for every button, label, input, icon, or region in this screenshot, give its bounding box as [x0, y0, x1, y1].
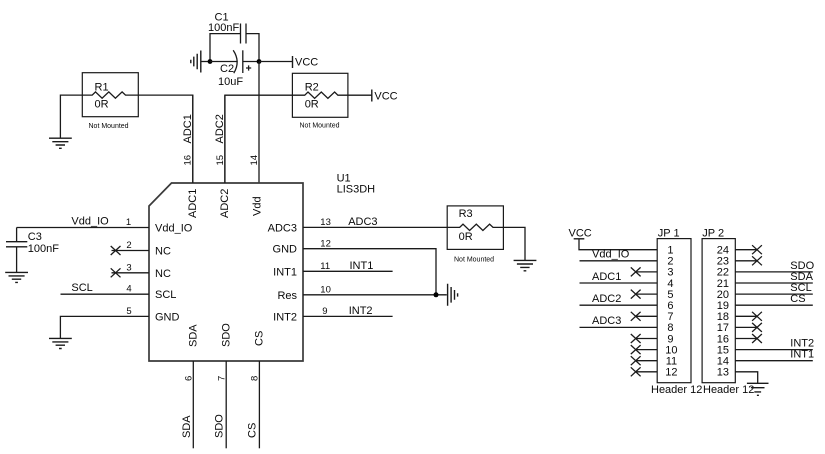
wire JP2 pin 19 CS net: [735, 304, 813, 306]
svg-text:ADC2: ADC2: [214, 114, 226, 143]
svg-text:1: 1: [126, 217, 131, 228]
wire pin 5 GND net: [60, 316, 149, 338]
svg-text:2: 2: [126, 240, 131, 251]
svg-text:4: 4: [126, 284, 131, 295]
wire Vdd net C2 junction down to pin 14: [258, 62, 260, 184]
wire JP2 pin 22 SDO net: [735, 271, 813, 273]
svg-text:ADC2: ADC2: [592, 293, 621, 305]
pin JP1-11 stub: [636, 360, 657, 362]
svg-text:C2: C2: [220, 63, 234, 75]
pin JP1-9 stub: [636, 338, 657, 340]
svg-text:Header 12: Header 12: [703, 384, 754, 396]
svg-text:INT1: INT1: [790, 349, 814, 361]
wire JP2 pin 13 to ground: [735, 372, 757, 383]
no-connect X JP2-18: [752, 312, 762, 321]
svg-text:SDA: SDA: [187, 324, 199, 347]
svg-text:NC: NC: [155, 268, 171, 280]
ground (pin 5): [49, 338, 72, 348]
wire JP1 pin 8 ADC3 net: [580, 326, 658, 328]
wire C1 right lead: [246, 34, 259, 62]
pin JP1-10 stub: [636, 349, 657, 351]
ground (JP2 pin 13): [747, 383, 769, 395]
svg-text:INT2: INT2: [273, 311, 297, 323]
svg-text:16: 16: [183, 155, 194, 166]
op-amp U1 LIS3DH body: [149, 173, 375, 362]
pin JP1-12 stub: [636, 371, 657, 373]
svg-text:INT1: INT1: [350, 260, 374, 272]
power VCC (at R2): [372, 90, 398, 103]
svg-text:SCL: SCL: [155, 289, 176, 301]
pin 2 NC stub: [112, 250, 150, 252]
svg-text:10: 10: [320, 284, 331, 295]
wire JP1 pin 6 ADC2 net: [580, 304, 658, 306]
resistor R3 0R (Not Mounted): [447, 206, 503, 264]
svg-text:14: 14: [249, 155, 260, 166]
power VCC (top): [293, 56, 319, 69]
svg-text:NC: NC: [155, 246, 171, 258]
wire pin 12 GND net elbow: [303, 249, 436, 295]
no-connect X pin 2: [111, 246, 121, 255]
svg-text:ADC2: ADC2: [219, 189, 231, 218]
header JP2 body: [702, 227, 754, 396]
wire pin 10 Res net: [303, 294, 447, 296]
svg-text:INT1: INT1: [273, 266, 297, 278]
no-connect X JP1-12: [631, 367, 641, 376]
svg-text:JP 2: JP 2: [702, 227, 724, 239]
svg-text:Vdd_IO: Vdd_IO: [71, 216, 109, 228]
svg-text:ADC1: ADC1: [187, 189, 199, 218]
no-connect X JP1-3: [631, 267, 641, 276]
svg-text:Not Mounted: Not Mounted: [89, 123, 129, 130]
wire R1 left to ground: [60, 95, 82, 138]
pin JP2-18 stub: [735, 315, 757, 317]
svg-text:Vdd: Vdd: [252, 196, 264, 216]
svg-text:R1: R1: [95, 81, 109, 93]
svg-text:5: 5: [126, 306, 131, 317]
pin JP2-17 stub: [735, 326, 757, 328]
no-connect X JP2-23: [752, 256, 762, 265]
svg-text:8: 8: [250, 376, 261, 381]
svg-text:0R: 0R: [305, 98, 319, 110]
node junction Res/GND: [434, 292, 439, 297]
svg-text:GND: GND: [155, 311, 180, 323]
svg-text:Vdd_IO: Vdd_IO: [592, 249, 630, 261]
svg-text:100nF: 100nF: [208, 22, 239, 34]
pin JP2-23 stub: [735, 260, 757, 262]
ground (at Res pin, rotated right): [448, 284, 458, 306]
wire pin 11 INT1 net: [303, 270, 393, 272]
svg-text:SCL: SCL: [71, 282, 92, 294]
wire JP1 pin 2 Vdd_IO net: [580, 260, 658, 262]
ground (below R3): [514, 260, 537, 270]
svg-text:6: 6: [184, 376, 195, 381]
no-connect X JP1-5: [631, 290, 641, 299]
svg-text:CS: CS: [246, 423, 258, 438]
wire pin 6 SDA vertical: [192, 361, 194, 448]
svg-text:9: 9: [322, 306, 327, 317]
wire JP1 pin 4 ADC1 net: [580, 282, 658, 284]
svg-text:VCC: VCC: [295, 57, 318, 69]
node junction C2 right: [257, 59, 262, 64]
svg-text:0R: 0R: [459, 231, 473, 243]
wire pin 13 ADC3 net to R3: [303, 226, 447, 228]
pin JP2-24 stub: [735, 249, 757, 251]
wire R2 right to VCC: [348, 94, 372, 96]
svg-text:SDO: SDO: [214, 414, 226, 438]
wire JP2 pin 14 INT1 net: [735, 360, 813, 362]
ground (below R1): [49, 138, 72, 148]
svg-text:ADC3: ADC3: [268, 222, 297, 234]
svg-text:CS: CS: [790, 293, 805, 305]
wire R3 right to ground: [503, 227, 525, 260]
svg-text:JP 1: JP 1: [658, 227, 680, 239]
capacitor C1 100nF: [208, 12, 246, 44]
pin 3 NC stub: [112, 272, 150, 274]
no-connect X JP2-16: [752, 334, 762, 343]
svg-text:ADC1: ADC1: [182, 114, 194, 143]
wire JP2 pin 21 SDA net: [735, 282, 813, 284]
wire VCC to JP1 pin 1: [579, 239, 657, 250]
svg-text:12: 12: [320, 238, 331, 249]
svg-text:7: 7: [216, 376, 227, 381]
no-connect X JP1-7: [631, 312, 641, 321]
wire pin 15 ADC2 vertical: [224, 95, 226, 183]
pin JP1-5 stub: [636, 293, 657, 295]
header JP1 body: [651, 227, 702, 396]
svg-text:3: 3: [126, 262, 131, 273]
svg-text:0R: 0R: [95, 98, 109, 110]
wire pin 8 CS vertical: [258, 361, 260, 448]
svg-text:CS: CS: [253, 331, 265, 346]
svg-text:13: 13: [320, 217, 331, 228]
svg-text:Res: Res: [277, 290, 297, 302]
svg-text:Header 12: Header 12: [651, 384, 702, 396]
svg-text:15: 15: [215, 155, 226, 166]
svg-text:ADC3: ADC3: [592, 315, 621, 327]
no-connect X JP2-17: [752, 323, 762, 332]
wire R2 left to ADC2 line: [225, 95, 293, 183]
no-connect X pin 3: [111, 268, 121, 277]
no-connect X JP1-10: [631, 345, 641, 354]
svg-text:GND: GND: [273, 244, 298, 256]
pin JP1-3 stub: [636, 271, 657, 273]
svg-text:10uF: 10uF: [218, 76, 243, 88]
svg-text:13: 13: [717, 367, 729, 379]
wire R1 right to ADC1 line: [138, 95, 193, 183]
svg-text:SDA: SDA: [181, 415, 193, 438]
ground (below C3): [5, 272, 28, 282]
wire pin 16 ADC1 vertical: [192, 95, 194, 183]
power VCC (JP1): [569, 227, 592, 239]
svg-text:VCC: VCC: [374, 90, 397, 102]
svg-text:100nF: 100nF: [28, 243, 59, 255]
svg-text:SDO: SDO: [221, 323, 233, 347]
resistor R2 0R (Not Mounted): [292, 73, 348, 129]
svg-text:VCC: VCC: [569, 227, 592, 239]
resistor R1 0R (Not Mounted): [82, 73, 138, 131]
svg-text:ADC3: ADC3: [348, 216, 377, 228]
svg-text:Not Mounted: Not Mounted: [300, 123, 340, 130]
svg-text:R2: R2: [305, 81, 319, 93]
wire JP2 pin 20 SCL net: [735, 293, 813, 295]
node junction C2 left: [208, 59, 213, 64]
no-connect X JP1-11: [631, 356, 641, 365]
ground (left of C2, rotated): [191, 51, 210, 73]
no-connect X JP2-24: [752, 245, 762, 254]
wire pin 4 SCL net: [61, 293, 150, 295]
svg-text:ADC1: ADC1: [592, 271, 621, 283]
svg-text:12: 12: [665, 367, 677, 379]
svg-text:INT2: INT2: [349, 305, 373, 317]
wire pin 1 Vdd_IO net: [17, 227, 149, 229]
wire JP2 pin 15 INT2 net: [735, 349, 813, 351]
svg-text:Vdd_IO: Vdd_IO: [155, 223, 193, 235]
svg-text:11: 11: [320, 261, 330, 272]
capacitor C2 10uF polarized: [210, 50, 259, 88]
wire C2 to VCC: [259, 61, 293, 63]
svg-text:Not Mounted: Not Mounted: [454, 257, 494, 264]
pin JP2-16 stub: [735, 338, 757, 340]
wire C1 left lead: [210, 34, 241, 62]
capacitor C3 100nF: [6, 228, 59, 273]
wire pin 9 INT2 net: [303, 315, 393, 317]
svg-text:LIS3DH: LIS3DH: [337, 183, 376, 195]
svg-text:R3: R3: [459, 208, 473, 220]
pin JP1-7 stub: [636, 315, 657, 317]
no-connect X JP1-9: [631, 334, 641, 343]
wire pin 7 SDO vertical: [225, 361, 227, 448]
svg-text:C3: C3: [28, 231, 42, 243]
